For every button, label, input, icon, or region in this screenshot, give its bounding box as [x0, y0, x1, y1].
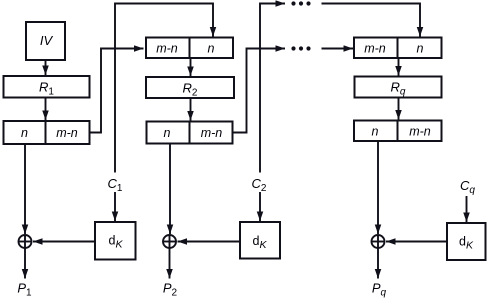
register R1 — [4, 76, 90, 98]
shift box 2 bottom divider — [189, 122, 191, 144]
node XOR2 — [163, 235, 176, 248]
svg-text:n: n — [372, 125, 379, 139]
svg-text:dK: dK — [459, 235, 474, 252]
svg-text:m-n: m-n — [201, 126, 223, 140]
svg-text:C1: C1 — [108, 176, 123, 194]
shift box q top (m-n | n) — [354, 38, 442, 59]
wire top box q to Rq — [398, 58, 400, 76]
wire XOR3 to Pq — [377, 248, 379, 279]
net C1 vertical — [115, 4, 213, 173]
svg-text:IV: IV — [40, 33, 54, 48]
wire Rq to shift box q — [398, 98, 400, 120]
register R2 — [146, 77, 234, 98]
svg-text:m-n: m-n — [409, 125, 431, 139]
shift box 2 top (m-n | n) — [146, 38, 233, 59]
wire shiftq n down to XOR3 — [377, 141, 379, 234]
block dK2 — [240, 222, 280, 259]
svg-text:R1: R1 — [39, 80, 54, 98]
svg-text:C2: C2 — [252, 176, 267, 194]
svg-text:dK: dK — [109, 234, 124, 251]
register Rq — [355, 77, 442, 98]
wire IV to R1 — [45, 60, 47, 75]
svg-text:m-n: m-n — [156, 42, 178, 56]
net C2 vertical — [260, 4, 285, 173]
wire row1 into n cell of register q — [322, 4, 421, 37]
shift box q top divider — [397, 38, 399, 59]
block dK1 — [95, 222, 136, 260]
wire C2 to dK2 — [259, 192, 261, 221]
svg-text:P2: P2 — [163, 281, 178, 299]
shift box 1 divider — [45, 121, 47, 144]
svg-text:R2: R2 — [183, 81, 198, 99]
wire top box 2 to R2 — [190, 58, 192, 76]
wire shift1 m-n feedback to register 2 input — [90, 49, 144, 133]
svg-text:m-n: m-n — [364, 42, 386, 56]
wire row2 into register q — [322, 48, 354, 50]
shift box q bottom divider — [397, 121, 399, 142]
dots row2 — [291, 46, 310, 50]
svg-text:dK: dK — [253, 234, 268, 251]
wire dK2 to XOR2 — [178, 241, 241, 243]
node XOR3 — [372, 235, 385, 248]
shift box 2 bottom (n | m-n) — [147, 122, 233, 144]
wire R1 to shift box 1 — [45, 98, 47, 121]
wire R2 to shift box 2 — [190, 98, 192, 121]
svg-text:n: n — [208, 42, 215, 56]
wire XOR1 to P1 — [24, 248, 26, 279]
dots row1 — [291, 1, 310, 5]
wire XOR2 to P2 — [169, 248, 171, 279]
svg-text:n: n — [21, 126, 28, 140]
svg-text:Rq: Rq — [391, 80, 406, 98]
wire shift2 m-n feedback toward dots — [233, 49, 286, 133]
shift box q bottom (n | m-n) — [354, 121, 442, 142]
wire Cq to dK3 — [466, 196, 468, 222]
wire dK3 to XOR3 — [386, 241, 447, 243]
wire shift1 n down to XOR1 — [24, 144, 26, 234]
svg-text:Pq: Pq — [372, 281, 387, 299]
wire dK1 to XOR1 — [33, 241, 95, 243]
svg-text:Cq: Cq — [460, 178, 475, 196]
node XOR1 — [19, 235, 32, 248]
wire C1 to dK1 — [114, 192, 116, 221]
svg-text:P1: P1 — [17, 281, 32, 299]
block dK3 — [447, 223, 486, 260]
svg-text:n: n — [417, 42, 424, 56]
wire shift2 n down to XOR2 — [169, 144, 171, 235]
svg-text:m-n: m-n — [56, 126, 78, 140]
shift box 2 top divider — [189, 38, 191, 59]
shift box 1 (n | m-n) — [4, 121, 90, 144]
svg-text:n: n — [164, 126, 171, 140]
block IV — [26, 22, 65, 60]
